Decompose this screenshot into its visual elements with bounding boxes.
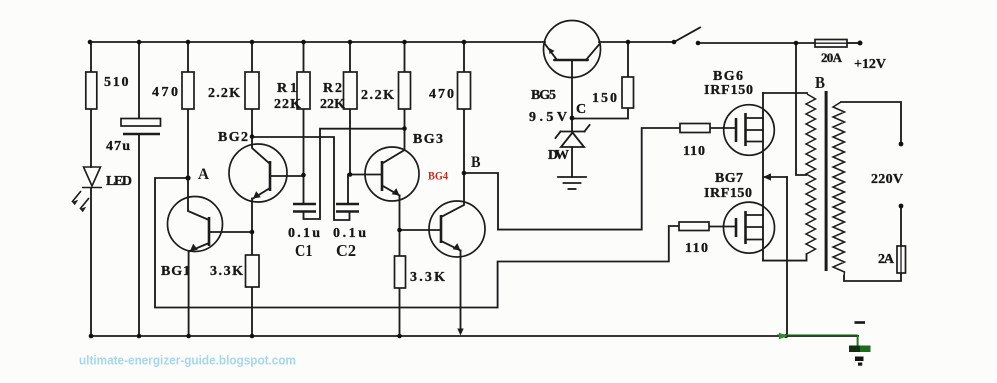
svg-text:+12V: +12V [854, 57, 886, 72]
svg-text:R2: R2 [323, 81, 342, 96]
svg-text:A: A [198, 166, 209, 183]
svg-text:BG5: BG5 [531, 88, 556, 103]
svg-text:3.3K: 3.3K [210, 264, 243, 279]
svg-text:IRF150: IRF150 [704, 83, 753, 98]
svg-text:220V: 220V [871, 172, 903, 187]
svg-text:22K: 22K [320, 97, 345, 112]
svg-text:C1: C1 [295, 241, 313, 260]
svg-text:BG6: BG6 [713, 69, 743, 84]
svg-text:IRF150: IRF150 [704, 186, 752, 201]
svg-text:470: 470 [429, 87, 454, 102]
svg-text:20A: 20A [821, 50, 843, 65]
svg-text:B: B [815, 73, 825, 92]
svg-text:2.2K: 2.2K [361, 88, 394, 103]
svg-text:2A: 2A [878, 252, 895, 267]
svg-text:R1: R1 [277, 81, 297, 96]
svg-text:510: 510 [104, 75, 129, 90]
svg-text:110: 110 [683, 144, 705, 159]
svg-text:2.2K: 2.2K [208, 86, 240, 101]
svg-text:470: 470 [152, 85, 178, 100]
svg-text:C2: C2 [336, 241, 356, 260]
svg-text:BG1: BG1 [161, 264, 190, 279]
svg-text:22K: 22K [274, 97, 301, 112]
svg-text:BG7: BG7 [715, 171, 743, 186]
svg-text:BG3: BG3 [413, 132, 443, 147]
svg-text:9.5V: 9.5V [529, 110, 567, 125]
svg-text:150: 150 [592, 91, 617, 106]
svg-text:LED: LED [106, 174, 132, 189]
svg-text:ultimate-energizer-guide.blogs: ultimate-energizer-guide.blogspot.com [79, 353, 296, 368]
svg-text:3.3K: 3.3K [410, 270, 445, 285]
svg-text:C: C [576, 102, 586, 117]
svg-text:DW: DW [548, 148, 569, 163]
svg-text:BG4: BG4 [428, 169, 448, 183]
svg-text:110: 110 [685, 241, 708, 256]
svg-text:BG2: BG2 [218, 130, 248, 145]
svg-text:B: B [471, 154, 481, 171]
svg-text:47u: 47u [106, 139, 130, 154]
svg-text:0.1u: 0.1u [333, 226, 366, 241]
svg-text:0.1u: 0.1u [288, 226, 320, 241]
